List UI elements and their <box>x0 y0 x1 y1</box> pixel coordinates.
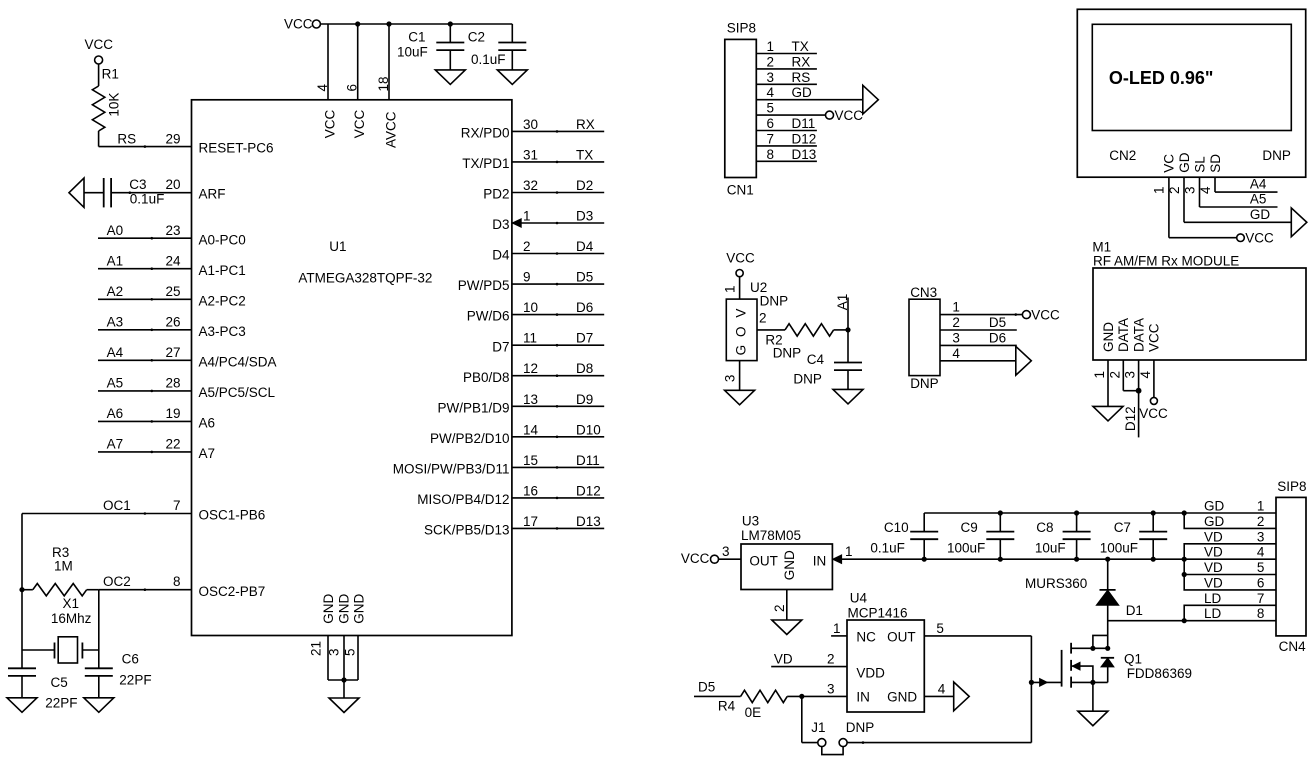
label X1 <box>63 596 80 611</box>
pin name A5/PC5/SCL <box>199 385 276 400</box>
wire net D11 <box>512 466 604 469</box>
pin number 1 (CN2) <box>1152 186 1167 194</box>
net label D6 (CN3) <box>989 330 1006 345</box>
svg-text:23: 23 <box>165 223 180 238</box>
svg-text:PD2: PD2 <box>483 187 509 202</box>
svg-text:D3: D3 <box>492 217 509 232</box>
svg-text:D13: D13 <box>576 514 601 529</box>
pin number 4 (CN1) <box>767 85 775 100</box>
wire GD rail <box>924 512 1276 514</box>
diode Q1 body <box>1101 658 1114 683</box>
pin number 6 <box>345 84 360 92</box>
svg-text:7: 7 <box>1257 591 1265 606</box>
label C6 <box>122 652 139 667</box>
pin number 7 <box>173 498 181 513</box>
transistor Q1 channel <box>1070 643 1072 688</box>
svg-text:VCC: VCC <box>1031 307 1060 322</box>
value 0.1uF (C10) <box>870 540 905 555</box>
svg-text:GND: GND <box>321 594 336 624</box>
label SIP8 (CN4) <box>1277 479 1306 494</box>
pin name VCC (pin6) <box>352 110 367 139</box>
pin number 2 (M1) <box>1107 371 1122 379</box>
svg-text:DNP: DNP <box>1262 148 1291 163</box>
pin number 13 <box>523 392 538 407</box>
refdes U4 <box>850 591 868 606</box>
svg-text:O: O <box>734 326 749 337</box>
svg-text:X1: X1 <box>63 596 80 611</box>
svg-text:3: 3 <box>767 70 775 85</box>
ground (M1) <box>1093 406 1123 421</box>
svg-text:1: 1 <box>1257 499 1265 514</box>
svg-text:MCP1416: MCP1416 <box>848 605 908 620</box>
svg-text:SIP8: SIP8 <box>1277 479 1306 494</box>
svg-text:PW/PB1/D9: PW/PB1/D9 <box>437 400 509 415</box>
svg-text:A1: A1 <box>107 253 124 268</box>
svg-text:D13: D13 <box>792 147 817 162</box>
net label A4 <box>1250 177 1267 192</box>
net label D12 <box>576 483 601 498</box>
pin number 14 <box>523 422 539 437</box>
ground (U2) <box>725 390 755 405</box>
value ATMEGA328TQPF-32 <box>298 270 432 285</box>
svg-text:VD: VD <box>1204 575 1223 590</box>
pin name PW/D6 <box>467 309 510 324</box>
wire CN1 pin 3 <box>756 83 817 85</box>
wire net TX <box>512 161 604 164</box>
junction C7 bottom <box>1151 557 1156 562</box>
label R4 <box>718 699 736 714</box>
value RF AM/FM Rx MODULE <box>1093 253 1239 268</box>
wire M1 pin2 <box>1123 360 1138 391</box>
wire net RX <box>512 130 604 133</box>
wire net A5 <box>98 390 192 393</box>
pin number 21 <box>309 641 324 656</box>
svg-text:OC1: OC1 <box>103 498 131 513</box>
wire CN1 pin 1 <box>756 53 817 55</box>
net label D11 (CN1) <box>792 116 816 131</box>
junction pin6 rail <box>355 21 360 26</box>
wire CN3 pin2 net D5 <box>940 329 1017 331</box>
svg-text:18: 18 <box>376 76 391 91</box>
wire net D13 <box>512 527 604 530</box>
pin number 16 <box>523 483 538 498</box>
value 16Mhz (X1) <box>51 611 92 626</box>
pin name O (U2) <box>734 326 749 337</box>
value 10K (R1) <box>106 93 121 117</box>
wire CN4 pin3 <box>1184 544 1276 559</box>
pin number 29 <box>165 132 180 147</box>
svg-text:4: 4 <box>767 85 775 100</box>
pin number 1 (U3) <box>845 544 853 559</box>
refdes U3 <box>742 514 759 529</box>
refdes Q1 <box>1124 651 1142 666</box>
junction D1 top <box>1105 557 1110 562</box>
wire C6 to ground <box>98 676 100 698</box>
svg-text:C9: C9 <box>961 520 978 535</box>
svg-text:4: 4 <box>952 346 960 361</box>
label C8 <box>1036 520 1053 535</box>
pin name G (U2) <box>734 345 749 356</box>
svg-text:10K: 10K <box>106 93 121 117</box>
connector CN3 body <box>909 299 940 375</box>
svg-text:OSC2-PB7: OSC2-PB7 <box>199 584 266 599</box>
pin name NC (U4) <box>856 629 876 644</box>
wire D1 to LD node <box>1107 605 1109 648</box>
net label OC2 <box>103 574 131 589</box>
net label D12 (CN1) <box>792 131 817 146</box>
svg-text:C1: C1 <box>408 29 425 44</box>
svg-text:D6: D6 <box>576 300 593 315</box>
diode D1 <box>1096 590 1119 606</box>
power flag VCC (top rail) <box>284 17 320 32</box>
svg-text:2: 2 <box>759 311 767 326</box>
svg-text:U4: U4 <box>850 591 868 606</box>
pin number 3 (CN3) <box>952 330 960 345</box>
net label D12 (M1) <box>1123 406 1138 431</box>
wire C3 to ARF pin <box>111 191 192 194</box>
value 0.1uF (C2) <box>471 52 506 67</box>
net label D2 <box>576 178 593 193</box>
svg-text:V: V <box>734 309 749 318</box>
pin number 4 (CN3) <box>952 346 960 361</box>
svg-text:LM78M05: LM78M05 <box>741 528 801 543</box>
pin name V (U2) <box>734 309 749 318</box>
wire VCC rail <box>321 23 513 25</box>
wire AVCC pin 18 <box>388 24 390 100</box>
wire net A1 <box>98 267 192 270</box>
pin name OUT (U4) <box>887 629 916 644</box>
pin number 5 (CN1) <box>767 101 775 116</box>
wire GND bus to ground <box>343 680 345 698</box>
wire C2 to ground <box>511 50 513 70</box>
power flag VCC (U2) <box>726 250 755 276</box>
label DNP (CN3) <box>910 376 939 391</box>
pin name A0-PC0 <box>199 232 246 247</box>
svg-text:RS: RS <box>117 132 136 147</box>
svg-text:GND: GND <box>782 550 797 580</box>
bulk arrow <box>1072 662 1080 670</box>
net label GD (CN2) <box>1250 207 1271 222</box>
wire CN1 pin 2 <box>756 68 817 70</box>
pin number 22 <box>165 437 180 452</box>
svg-text:A3-PC3: A3-PC3 <box>199 324 246 339</box>
junction GD rail <box>998 510 1003 515</box>
svg-text:VD: VD <box>774 652 793 667</box>
resistor R2 <box>785 324 834 336</box>
svg-text:GD: GD <box>792 85 813 100</box>
pin number 1 (CN1) <box>767 39 775 54</box>
svg-text:ARF: ARF <box>199 187 226 202</box>
net label A5 <box>107 376 124 391</box>
pin number 20 <box>165 177 180 192</box>
svg-text:A2: A2 <box>107 284 124 299</box>
svg-text:A4: A4 <box>107 345 124 360</box>
wire OC1 net <box>22 512 192 515</box>
svg-text:5: 5 <box>936 621 944 636</box>
svg-text:D10: D10 <box>576 422 601 437</box>
svg-text:VCC: VCC <box>1147 323 1162 352</box>
svg-text:C6: C6 <box>122 652 139 667</box>
power flag VCC (R1 pullup) <box>85 37 114 64</box>
gate arrow <box>1040 678 1048 686</box>
svg-text:2: 2 <box>772 604 787 612</box>
net label A5 <box>1250 192 1267 207</box>
pin number 19 <box>165 406 180 421</box>
wire RS net <box>99 131 192 148</box>
svg-text:VCC: VCC <box>1139 406 1168 421</box>
driver U4 body <box>847 620 924 712</box>
pin name SCK/PB5/D13 <box>424 523 510 538</box>
svg-text:TX/PD1: TX/PD1 <box>462 156 509 171</box>
svg-text:2: 2 <box>523 239 531 254</box>
value 0E (R4) <box>745 705 762 720</box>
label R3 <box>52 545 69 560</box>
ground (C6) <box>84 698 114 713</box>
svg-text:10: 10 <box>523 300 538 315</box>
display screen inner box <box>1092 24 1291 130</box>
svg-text:A5/PC5/SCL: A5/PC5/SCL <box>199 385 276 400</box>
pin number 2 (CN3) <box>952 315 960 330</box>
svg-text:OSC1-PB6: OSC1-PB6 <box>199 508 266 523</box>
wire rail to C1 <box>449 24 451 43</box>
junction GD rail <box>1074 510 1079 515</box>
value 22PF (C6) <box>119 673 151 688</box>
wire CN4 pin5 <box>1184 559 1276 574</box>
svg-text:3: 3 <box>952 330 960 345</box>
pin number 4 <box>315 84 330 92</box>
pin number 11 <box>523 331 537 346</box>
wire node to C4 <box>847 330 849 363</box>
svg-text:RX: RX <box>792 54 811 69</box>
svg-text:MURS360: MURS360 <box>1025 576 1087 591</box>
pin number 6 (CN4) <box>1257 575 1265 590</box>
svg-text:VD: VD <box>1204 529 1223 544</box>
pin name VCC (M1) <box>1147 323 1162 352</box>
junction C1 rail <box>448 21 453 26</box>
net label GD (CN1) <box>792 85 813 100</box>
svg-text:OUT: OUT <box>887 629 916 644</box>
pin name IN (U3) <box>813 553 827 568</box>
svg-text:1: 1 <box>767 39 775 54</box>
capacitor C10 <box>910 532 938 540</box>
svg-text:4: 4 <box>1138 371 1153 379</box>
wire net A0 <box>98 237 192 240</box>
pin number 23 <box>165 223 180 238</box>
junction gate <box>1029 680 1034 685</box>
svg-text:IN: IN <box>813 553 827 568</box>
refdes CN2 <box>1109 148 1136 163</box>
wire R4 to U4 pin3 <box>787 695 847 697</box>
svg-text:U3: U3 <box>742 514 759 529</box>
pin name GND (U3) <box>782 550 797 580</box>
pin number 1 <box>523 209 531 224</box>
svg-text:31: 31 <box>523 147 538 162</box>
value LM78M05 <box>741 528 801 543</box>
capacitor C5 <box>8 668 36 676</box>
svg-text:RESET-PC6: RESET-PC6 <box>199 141 274 156</box>
wire net D5 <box>512 283 604 286</box>
svg-text:D2: D2 <box>576 178 593 193</box>
pin name AVCC (pin18) <box>383 111 398 148</box>
pin number 4 (CN2) <box>1198 186 1213 194</box>
svg-text:0.1uF: 0.1uF <box>870 540 905 555</box>
connector CN4 body <box>1276 497 1306 636</box>
pin number 1 (CN3) <box>952 300 960 315</box>
wire net A4 <box>98 359 192 362</box>
svg-text:4: 4 <box>938 681 946 696</box>
pin name MISO/PB4/D12 <box>417 492 509 507</box>
svg-text:2: 2 <box>952 315 960 330</box>
svg-text:D8: D8 <box>576 361 593 376</box>
wire OUT corner <box>1030 636 1032 743</box>
pin name SD (CN2) <box>1208 154 1223 173</box>
wire CN4 pin6 <box>1184 575 1276 590</box>
svg-text:GND: GND <box>887 690 917 705</box>
pin name OUT (U3) <box>749 553 778 568</box>
svg-text:3: 3 <box>722 544 730 559</box>
svg-text:VCC: VCC <box>352 110 367 139</box>
wire CN3 pin1 to VCC <box>940 313 1022 316</box>
wire VD rail <box>841 558 1276 560</box>
svg-text:12: 12 <box>523 361 538 376</box>
pin name RX/PD0 <box>461 126 510 141</box>
value 100uF (C9) <box>947 540 985 555</box>
pin name PW/PB1/D9 <box>437 400 509 415</box>
pin name D3 <box>492 217 509 232</box>
capacitor C2 <box>498 43 526 51</box>
svg-text:SCK/PB5/D13: SCK/PB5/D13 <box>424 523 510 538</box>
svg-text:19: 19 <box>165 406 180 421</box>
svg-text:8: 8 <box>173 574 181 589</box>
capacitor C3 <box>104 178 111 207</box>
pin number 24 <box>165 253 181 268</box>
svg-text:9: 9 <box>523 270 531 285</box>
svg-text:DATA: DATA <box>1131 318 1146 352</box>
svg-text:SIP8: SIP8 <box>727 20 756 35</box>
wire arrow to C3 <box>84 192 104 194</box>
svg-text:PW/PD5: PW/PD5 <box>458 278 510 293</box>
pin number 3 (CN1) <box>767 70 775 85</box>
wire J1 to gate node <box>847 741 1031 744</box>
svg-text:29: 29 <box>165 132 180 147</box>
svg-text:VCC: VCC <box>284 17 313 32</box>
net label A6 <box>107 406 124 421</box>
svg-text:2: 2 <box>767 54 775 69</box>
off-page arrow GD (CN1) <box>863 85 879 114</box>
svg-text:0.1uF: 0.1uF <box>130 191 165 206</box>
svg-text:OUT: OUT <box>749 553 778 568</box>
svg-text:8: 8 <box>767 147 775 162</box>
svg-text:11: 11 <box>523 331 537 346</box>
svg-text:DATA: DATA <box>1116 318 1131 352</box>
wire GND pin 21 <box>327 635 329 680</box>
svg-text:MOSI/PW/PB3/D11: MOSI/PW/PB3/D11 <box>393 462 510 477</box>
wire CN1 pin 8 <box>756 160 817 162</box>
svg-text:C2: C2 <box>468 29 485 44</box>
svg-text:A5: A5 <box>1250 192 1267 207</box>
svg-text:A6: A6 <box>107 406 124 421</box>
svg-text:NC: NC <box>856 629 876 644</box>
wire U4 pin1 <box>831 635 847 637</box>
pin name TX/PD1 <box>462 156 509 171</box>
pin name IN (U4) <box>856 690 870 705</box>
net label A7 <box>107 437 124 452</box>
wire to J1 <box>802 696 818 742</box>
svg-text:28: 28 <box>165 376 180 391</box>
ground (C4) <box>833 389 863 404</box>
svg-text:GND: GND <box>1101 322 1116 352</box>
wire A1 stub <box>847 298 849 330</box>
svg-text:5: 5 <box>343 648 358 656</box>
wire C4 to ground <box>847 370 849 389</box>
svg-text:VC: VC <box>1161 154 1176 173</box>
svg-text:D5: D5 <box>698 680 715 695</box>
pin number 4 (M1) <box>1138 371 1153 379</box>
pin number 3 <box>327 648 342 656</box>
svg-text:A3: A3 <box>107 314 124 329</box>
wire net D8 <box>512 374 604 377</box>
label C5 <box>51 675 68 690</box>
svg-text:1: 1 <box>833 621 841 636</box>
svg-text:GD: GD <box>1204 499 1225 514</box>
wire net A7 <box>98 451 192 454</box>
wire GND pin 3 <box>343 635 345 680</box>
svg-text:PB0/D8: PB0/D8 <box>463 370 510 385</box>
svg-text:1M: 1M <box>54 558 73 573</box>
wire CN2 pin1 to VCC <box>1169 177 1237 238</box>
wire U4 pin5 OUT <box>924 635 1031 637</box>
pin name MOSI/PW/PB3/D11 <box>393 462 510 477</box>
wire OSC1 branch vertical <box>21 514 23 669</box>
junction C10 bottom <box>922 557 927 562</box>
svg-text:A2-PC2: A2-PC2 <box>199 293 246 308</box>
svg-text:GND: GND <box>351 594 366 624</box>
pin name D7 <box>492 339 509 354</box>
net label GD (CN4 pin1) <box>1204 499 1225 514</box>
wire CN1 pin 6 <box>756 130 817 132</box>
wire gate <box>1031 681 1061 683</box>
display module CN2 outer box <box>1077 9 1305 177</box>
pin name VCC (pin4) <box>322 110 337 139</box>
svg-text:100uF: 100uF <box>1100 540 1138 555</box>
svg-text:D3: D3 <box>576 209 593 224</box>
net label LD (CN4 pin7) <box>1204 591 1222 606</box>
wire C10 to VD rail <box>923 539 925 559</box>
pin number 4 (U4) <box>938 681 946 696</box>
label DNP (U2) <box>760 293 789 308</box>
svg-text:A5: A5 <box>107 376 124 391</box>
svg-text:21: 21 <box>309 641 324 656</box>
svg-text:20: 20 <box>165 177 180 192</box>
pin name A4/PC4/SDA <box>199 354 277 369</box>
module M1 body <box>1093 268 1306 360</box>
svg-text:24: 24 <box>165 253 181 268</box>
power flag VCC (U3) <box>681 551 719 566</box>
svg-text:25: 25 <box>165 284 180 299</box>
junction C8 bottom <box>1074 557 1079 562</box>
pin number 3 (U4) <box>827 681 835 696</box>
wire M1 pin3 net D12 <box>1138 360 1140 437</box>
svg-text:RX/PD0: RX/PD0 <box>461 126 510 141</box>
svg-text:DNP: DNP <box>793 371 822 386</box>
svg-text:1: 1 <box>523 209 531 224</box>
svg-text:DNP: DNP <box>773 346 802 361</box>
wire M1 pin4 <box>1153 360 1155 397</box>
wire C5 to ground <box>21 676 23 698</box>
svg-text:A7: A7 <box>107 437 124 452</box>
wire U2 pin2 <box>757 329 785 331</box>
svg-text:16: 16 <box>523 483 538 498</box>
